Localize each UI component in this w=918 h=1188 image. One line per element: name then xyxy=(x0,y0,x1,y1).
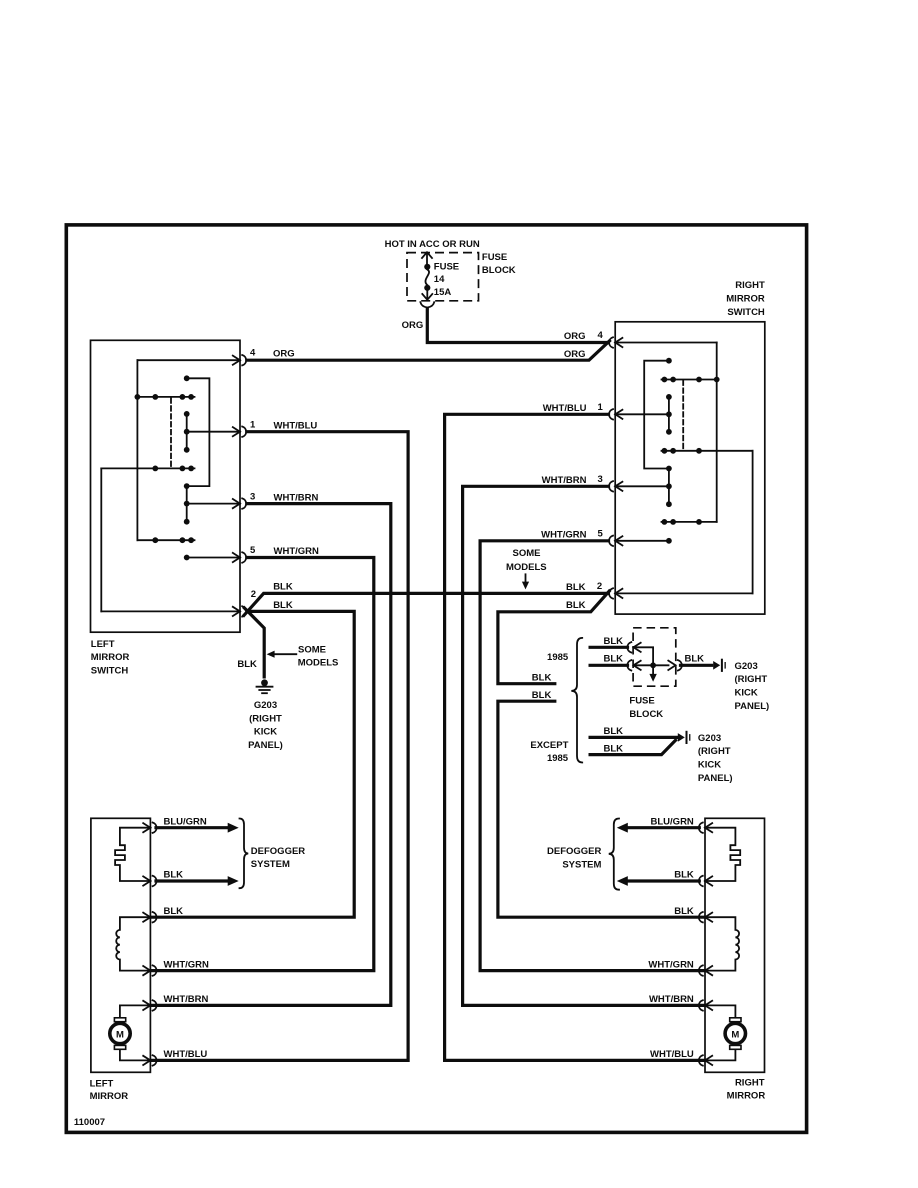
wire BLK right pin 2 to 1985 splice stub xyxy=(498,591,609,684)
some models left pointer arrow xyxy=(267,651,297,658)
svg-text:BLK: BLK xyxy=(164,870,184,881)
fuse F14 15A symbol xyxy=(422,252,432,300)
svg-text:PANEL): PANEL) xyxy=(698,773,733,784)
svg-text:110007: 110007 xyxy=(74,1117,105,1128)
fuse block 1 dashed box xyxy=(407,253,479,301)
right switch pin 4 line xyxy=(615,342,717,344)
svg-text:MIRROR: MIRROR xyxy=(90,1091,129,1102)
svg-text:WHT/BRN: WHT/BRN xyxy=(164,994,209,1005)
left switch dashed coupling xyxy=(170,398,172,468)
ground G203 left xyxy=(257,679,273,693)
wire WHT/BRN left switch pin 3 to left mirror xyxy=(151,504,391,1006)
right switch row 2 junction dots xyxy=(662,448,702,454)
right mirror switch box xyxy=(615,322,765,614)
svg-text:SWITCH: SWITCH xyxy=(91,665,129,676)
svg-text:2: 2 xyxy=(251,589,256,600)
svg-text:KICK: KICK xyxy=(735,688,758,699)
defogger system label left xyxy=(251,846,306,870)
svg-text:5: 5 xyxy=(250,545,256,556)
left mirror connector row 6 xyxy=(143,1055,156,1065)
fuse value labels FUSE 14 15A xyxy=(434,262,459,298)
svg-text:BLK: BLK xyxy=(273,600,293,611)
wire BLK splice stub 2 to right mirror xyxy=(498,701,705,917)
svg-text:BLK: BLK xyxy=(566,600,586,611)
left switch link loop B xyxy=(187,378,210,486)
left switch pin 2 connector xyxy=(233,606,246,616)
right switch right vertical to pin 2 xyxy=(752,451,754,594)
svg-text:MIRROR: MIRROR xyxy=(91,652,130,663)
left mirror switch box xyxy=(91,340,241,632)
left mirror connector row 5 xyxy=(143,1000,156,1010)
fuse block 2 junction dot xyxy=(650,662,656,668)
svg-text:4: 4 xyxy=(598,330,604,341)
svg-text:ORG: ORG xyxy=(564,349,586,360)
svg-text:PANEL): PANEL) xyxy=(248,740,283,751)
wire WHT/GRN right switch pin 5 to right mirror xyxy=(480,541,705,971)
right switch pin 1 line xyxy=(615,413,669,415)
svg-text:WHT/GRN: WHT/GRN xyxy=(541,530,587,541)
svg-text:BLU/GRN: BLU/GRN xyxy=(164,816,207,827)
svg-text:G203: G203 xyxy=(698,733,721,744)
svg-text:BLK: BLK xyxy=(532,690,552,701)
left switch pin 3 connector xyxy=(233,498,246,508)
svg-text:WHT/BRN: WHT/BRN xyxy=(542,475,587,486)
right switch contact chain 2 xyxy=(668,469,670,505)
note SOME MODELS right xyxy=(506,548,547,573)
svg-text:MIRROR: MIRROR xyxy=(727,1090,766,1101)
svg-text:5: 5 xyxy=(598,529,604,540)
svg-text:1: 1 xyxy=(250,419,256,430)
defogger brace left xyxy=(240,819,249,889)
svg-text:BLK: BLK xyxy=(237,659,257,670)
right switch row 3 junction dots xyxy=(662,519,702,525)
left switch chain 2 dots xyxy=(184,483,190,524)
right switch pin 2 line xyxy=(615,592,752,594)
svg-text:LEFT: LEFT xyxy=(90,1078,114,1089)
wire WHT/BRN right switch pin 3 to right mirror xyxy=(463,486,705,1005)
left mirror connector row 1 xyxy=(143,823,156,833)
wire BLU/GRN right mirror to defogger xyxy=(617,823,700,833)
right switch pin 3 line xyxy=(615,485,669,487)
left mirror box xyxy=(91,818,150,1072)
svg-text:LEFT: LEFT xyxy=(91,639,115,650)
wire BLK right mirror to defogger xyxy=(617,876,700,886)
border frame xyxy=(66,225,806,1133)
svg-text:(RIGHT: (RIGHT xyxy=(249,713,282,724)
svg-text:WHT/GRN: WHT/GRN xyxy=(164,959,210,970)
right switch dashed coupling xyxy=(682,381,684,451)
fuse block 2 internal ground stub arrow xyxy=(649,667,656,682)
left switch contact chain 1 xyxy=(186,414,188,450)
svg-text:BLK: BLK xyxy=(604,743,624,754)
svg-text:BLK: BLK xyxy=(604,726,624,737)
wire BLU/GRN left mirror to defogger xyxy=(156,823,239,833)
right switch link loop B xyxy=(644,361,669,469)
left switch row 1 junction dots xyxy=(135,394,195,400)
svg-text:1985: 1985 xyxy=(547,652,569,663)
right switch contact chain 1 xyxy=(668,397,670,432)
svg-text:FUSE: FUSE xyxy=(482,252,507,263)
left switch pin 4 line xyxy=(137,359,240,361)
left switch chain 1 dots xyxy=(184,411,190,453)
svg-text:(RIGHT: (RIGHT xyxy=(698,746,731,757)
ground G203 right lower label xyxy=(698,733,733,784)
left switch pin 5 contact dot xyxy=(184,555,190,561)
left switch pin 5 line xyxy=(187,557,240,559)
svg-text:SWITCH: SWITCH xyxy=(727,307,765,318)
left switch pin 4 connector xyxy=(233,355,246,365)
left switch row 2 junction dots xyxy=(152,466,194,472)
right mirror connector row 3 xyxy=(699,912,712,922)
svg-text:WHT/BLU: WHT/BLU xyxy=(164,1049,208,1060)
fuse block 2 internal link xyxy=(634,647,669,665)
fuse block 2 upper connector xyxy=(627,642,640,652)
right mirror connector row 2 xyxy=(699,876,712,886)
wire BLK except-1985 lower to ground xyxy=(590,740,675,754)
left switch contact row 3 xyxy=(137,539,194,541)
right mirror label xyxy=(727,1078,766,1102)
wire ORG from left switch pin 4 to right switch pin 4 xyxy=(247,341,610,360)
svg-text:1: 1 xyxy=(598,402,604,413)
left switch pin 1 connector xyxy=(233,427,246,437)
svg-text:BLK: BLK xyxy=(604,654,624,665)
defogger brace right xyxy=(609,819,619,890)
right mirror connector row 4 xyxy=(699,965,712,975)
left mirror motor winding coil xyxy=(116,917,150,970)
left mirror connector row 2 xyxy=(143,876,156,886)
left switch loop B top dot xyxy=(184,375,190,381)
left mirror label xyxy=(90,1078,129,1102)
wire BLK except-1985 upper to ground xyxy=(590,736,677,739)
svg-text:MODELS: MODELS xyxy=(506,562,547,573)
svg-text:BLK: BLK xyxy=(685,654,705,665)
fuse block 1 label xyxy=(482,252,516,276)
svg-text:WHT/BLU: WHT/BLU xyxy=(274,420,318,431)
svg-text:KICK: KICK xyxy=(698,760,721,771)
left switch left vertical to pin 2 xyxy=(100,468,102,611)
left switch pin 2 line xyxy=(101,610,240,612)
svg-text:G203: G203 xyxy=(254,700,277,711)
svg-text:BLU/GRN: BLU/GRN xyxy=(651,816,694,827)
svg-text:M: M xyxy=(116,1030,124,1041)
svg-text:WHT/BRN: WHT/BRN xyxy=(649,994,694,1005)
right switch pin 5 connector xyxy=(609,536,622,546)
right switch contact row 3 xyxy=(662,521,717,523)
right mirror connector row 5 xyxy=(699,1000,712,1010)
left mirror connector row 4 xyxy=(143,965,156,975)
svg-text:3: 3 xyxy=(598,474,603,485)
svg-text:DEFOGGER: DEFOGGER xyxy=(547,846,602,857)
fuse block 2 label xyxy=(629,696,663,720)
svg-text:3: 3 xyxy=(250,491,255,502)
svg-text:15A: 15A xyxy=(434,287,452,298)
svg-text:G203: G203 xyxy=(735,661,758,672)
right mirror motor M2 xyxy=(705,1005,746,1060)
wire BLK fuse block 2 to ground xyxy=(681,664,712,667)
wire BLK 1985 lower to fuse block 2 xyxy=(590,664,627,667)
svg-text:HOT IN ACC OR RUN: HOT IN ACC OR RUN xyxy=(385,239,480,250)
wire BLK left pin 2 ground drop xyxy=(244,608,264,677)
fuse block 2 lower connector xyxy=(627,660,640,670)
left mirror switch label xyxy=(91,639,130,677)
svg-text:SOME: SOME xyxy=(298,644,326,655)
svg-text:WHT/BRN: WHT/BRN xyxy=(274,492,319,503)
svg-text:BLOCK: BLOCK xyxy=(629,709,663,720)
svg-text:EXCEPT: EXCEPT xyxy=(530,740,568,751)
svg-text:SYSTEM: SYSTEM xyxy=(251,859,290,870)
svg-text:SYSTEM: SYSTEM xyxy=(562,859,601,870)
right switch pin 5 contact dot xyxy=(666,538,672,544)
right switch loop B top dot xyxy=(666,358,672,364)
svg-text:FUSE: FUSE xyxy=(629,696,654,707)
svg-text:SOME: SOME xyxy=(513,548,541,559)
left switch vertical bus A xyxy=(136,360,138,540)
svg-text:RIGHT: RIGHT xyxy=(735,1078,765,1089)
left switch pin 3 line xyxy=(187,503,240,505)
right switch contact row 2 xyxy=(662,450,753,452)
left switch pin 1 line xyxy=(187,431,240,433)
svg-text:(RIGHT: (RIGHT xyxy=(735,674,768,685)
label EXCEPT 1985 xyxy=(530,740,568,764)
svg-text:FUSE: FUSE xyxy=(434,262,459,273)
right mirror defogger heater element xyxy=(705,828,740,881)
svg-text:WHT/BLU: WHT/BLU xyxy=(650,1049,694,1060)
svg-text:MIRROR: MIRROR xyxy=(726,294,765,305)
left mirror motor M1 xyxy=(110,1005,151,1060)
right switch chain 1 dots xyxy=(666,394,672,435)
wire WHT/BLU left switch pin 1 to left mirror xyxy=(151,432,408,1061)
svg-text:ORG: ORG xyxy=(273,349,295,360)
left switch pin 5 connector xyxy=(233,552,246,562)
svg-text:M: M xyxy=(731,1030,739,1041)
svg-text:DEFOGGER: DEFOGGER xyxy=(251,846,306,857)
svg-text:KICK: KICK xyxy=(254,727,277,738)
connector below fuse xyxy=(420,302,434,307)
left switch row 3 junction dots xyxy=(152,537,194,543)
right mirror connector row 6 xyxy=(699,1055,712,1065)
right mirror connector row 1 xyxy=(699,823,712,833)
svg-text:ORG: ORG xyxy=(402,320,424,331)
svg-text:14: 14 xyxy=(434,274,445,285)
svg-text:BLK: BLK xyxy=(532,672,552,683)
left switch contact chain 2 xyxy=(186,486,188,522)
right switch vertical bus xyxy=(716,343,718,522)
left mirror connector row 3 xyxy=(143,912,156,922)
svg-text:WHT/GRN: WHT/GRN xyxy=(274,546,320,557)
svg-text:BLK: BLK xyxy=(674,906,694,917)
svg-text:2: 2 xyxy=(597,581,602,592)
ground G203 right upper label xyxy=(735,661,770,712)
svg-text:BLK: BLK xyxy=(273,582,293,593)
fuse block 2 dashed box xyxy=(633,628,676,686)
svg-text:PANEL): PANEL) xyxy=(735,701,770,712)
right switch pin 1 connector xyxy=(609,409,622,419)
defogger system label right xyxy=(547,846,602,870)
left switch contact row 1 xyxy=(137,396,194,398)
fuse block 2 right exit arrow xyxy=(668,661,675,670)
wire BLK left mirror to defogger xyxy=(156,876,239,886)
right switch row 1 junction dots xyxy=(662,377,720,383)
right mirror box xyxy=(705,818,765,1072)
right mirror motor winding coil xyxy=(705,917,739,970)
wire ORG from fuse to right switch pin 4 xyxy=(427,309,607,343)
ground G203 left label xyxy=(248,700,283,751)
svg-text:BLK: BLK xyxy=(164,906,184,917)
svg-text:BLK: BLK xyxy=(674,870,694,881)
svg-text:MODELS: MODELS xyxy=(298,658,339,669)
right switch chain 2 dots xyxy=(666,466,672,508)
fuse block 2 right exit connector arc xyxy=(678,660,682,670)
right switch pin 4 connector xyxy=(609,337,622,347)
ground G203 right lower xyxy=(678,731,691,744)
left switch contact row 2 xyxy=(101,467,194,469)
right switch contact row 1 xyxy=(662,379,717,381)
svg-text:RIGHT: RIGHT xyxy=(735,280,765,291)
ground G203 right upper xyxy=(713,659,726,672)
wire BLK 1985 upper to fuse block 2 xyxy=(590,646,627,649)
svg-text:4: 4 xyxy=(250,348,256,359)
left mirror defogger heater element xyxy=(115,828,150,881)
wire WHT/GRN left switch pin 5 to left mirror xyxy=(151,558,374,971)
svg-text:WHT/GRN: WHT/GRN xyxy=(648,959,694,970)
right switch pin 2 connector xyxy=(609,588,622,598)
svg-text:WHT/BLU: WHT/BLU xyxy=(543,403,587,414)
note SOME MODELS left xyxy=(298,644,339,668)
wire BLK left switch pin 2 to right switch pin 2 xyxy=(244,593,607,615)
right mirror switch label xyxy=(726,280,765,318)
some models right pointer arrow xyxy=(522,574,529,589)
svg-text:BLK: BLK xyxy=(566,582,586,593)
right switch pin 3 connector xyxy=(609,481,622,491)
wire BLK left switch pin 2 to left mirror xyxy=(151,611,354,917)
right switch pin 5 line xyxy=(615,540,669,542)
model split brace xyxy=(571,638,582,763)
wire WHT/BLU right switch pin 1 to right mirror xyxy=(445,414,705,1060)
svg-text:1985: 1985 xyxy=(547,753,569,764)
svg-text:BLOCK: BLOCK xyxy=(482,265,516,276)
svg-text:BLK: BLK xyxy=(604,636,624,647)
svg-text:ORG: ORG xyxy=(564,331,586,342)
